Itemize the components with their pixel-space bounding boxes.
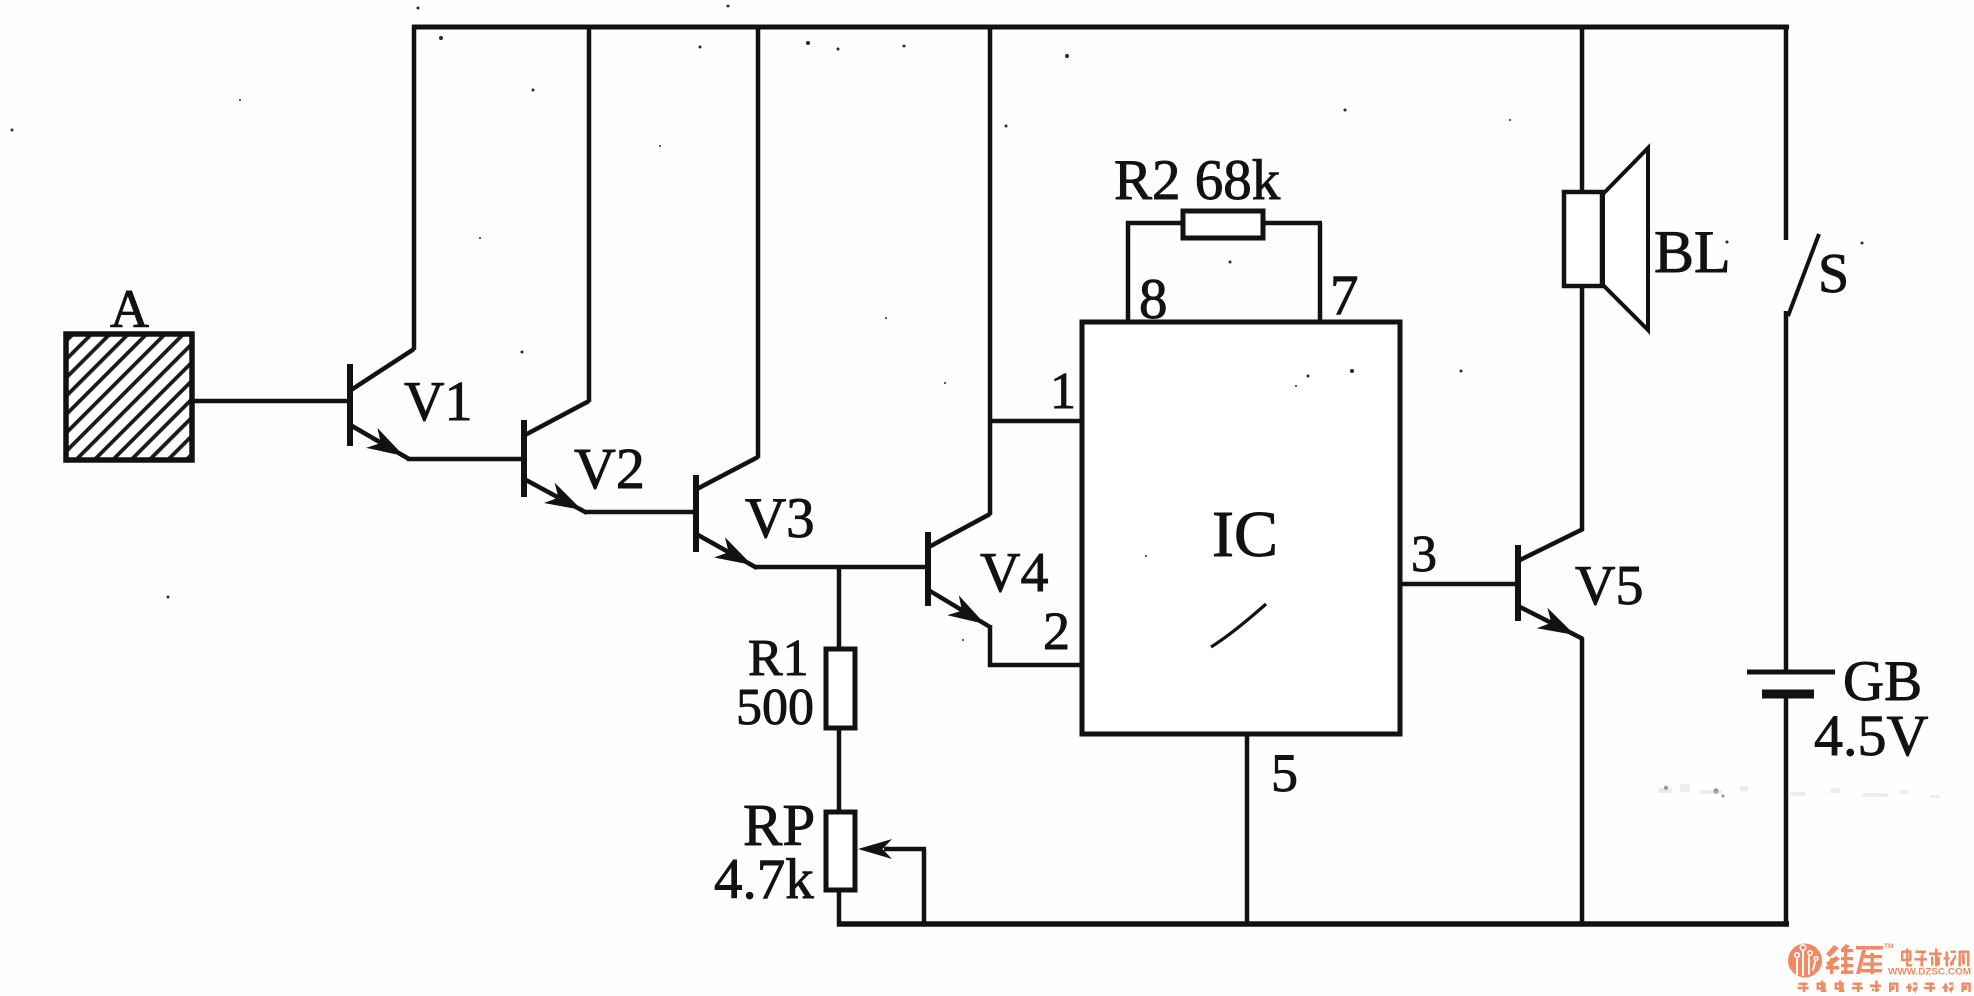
svg-text:S: S <box>1818 243 1849 305</box>
svg-text:500: 500 <box>736 679 814 736</box>
svg-text:7: 7 <box>1330 264 1359 327</box>
svg-text:A: A <box>110 279 149 339</box>
svg-text:4.5V: 4.5V <box>1814 703 1929 768</box>
svg-text:WWW.DZSC.COM: WWW.DZSC.COM <box>1888 967 1971 977</box>
svg-text:V2: V2 <box>574 436 645 501</box>
svg-text:V1: V1 <box>404 371 472 433</box>
svg-text:TM: TM <box>1884 943 1893 950</box>
svg-text:1: 1 <box>1050 363 1076 420</box>
svg-text:V5: V5 <box>1575 555 1643 617</box>
svg-text:4.7k: 4.7k <box>714 848 814 911</box>
svg-text:R2 68k: R2 68k <box>1114 149 1281 212</box>
svg-text:3: 3 <box>1411 526 1437 583</box>
svg-text:5: 5 <box>1271 743 1298 803</box>
svg-text:V3: V3 <box>745 487 815 550</box>
svg-text:8: 8 <box>1139 268 1168 331</box>
svg-text:2: 2 <box>1043 601 1070 661</box>
svg-text:IC: IC <box>1212 498 1278 571</box>
svg-text:BL: BL <box>1654 219 1731 285</box>
svg-text:V4: V4 <box>980 542 1048 604</box>
